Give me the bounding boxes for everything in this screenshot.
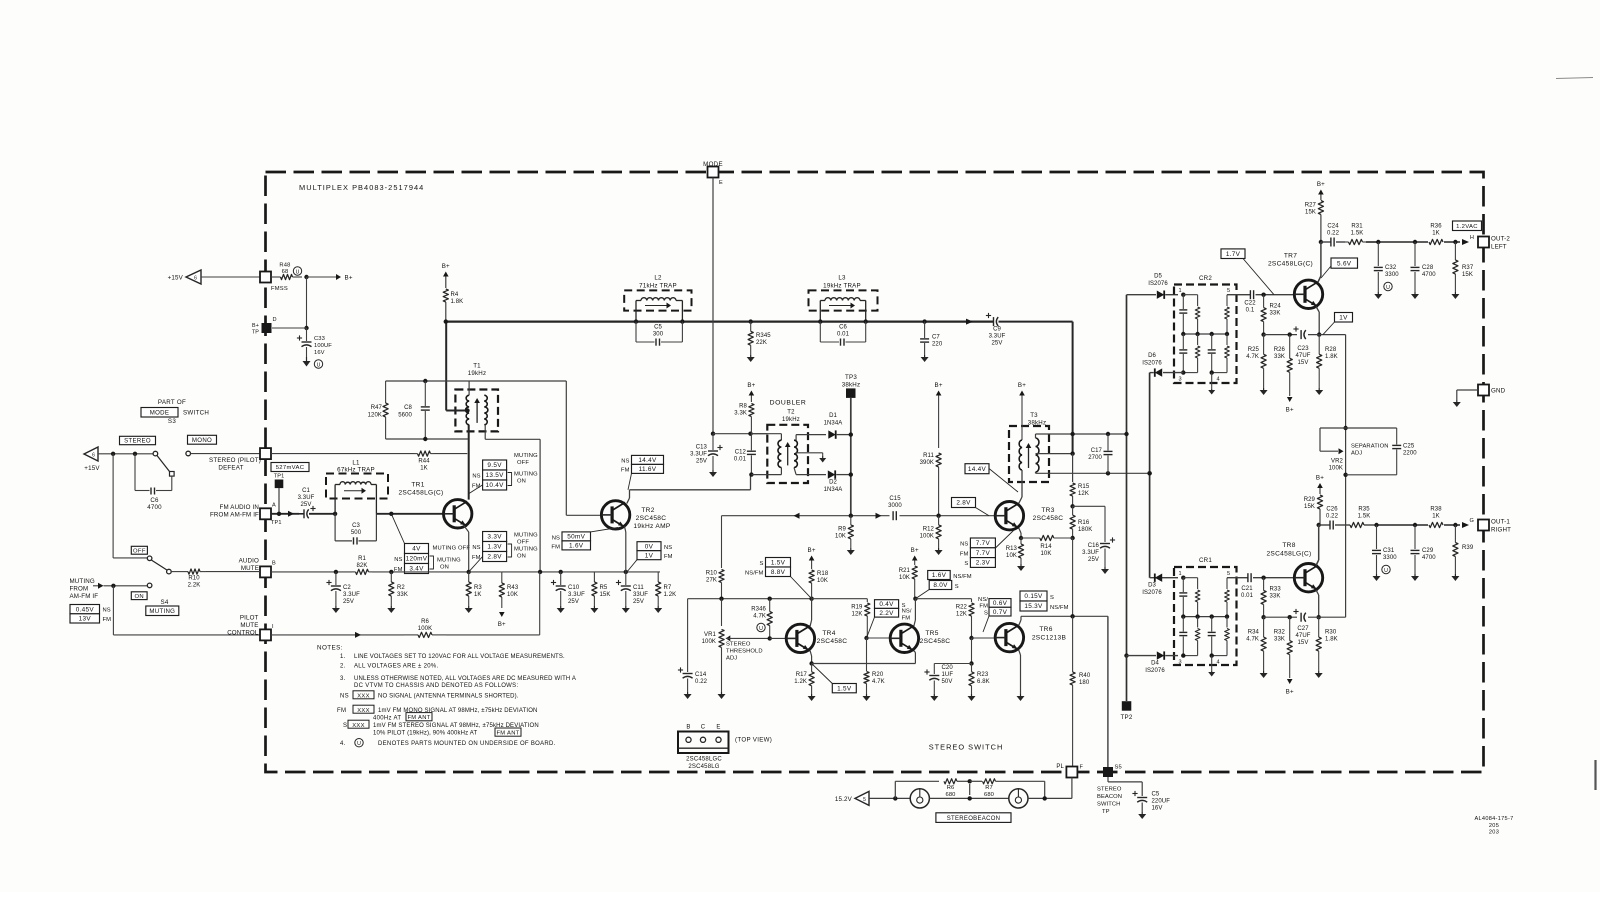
capacitor C22 0.1 series (1241, 290, 1294, 313)
svg-text:AL4084-175-7: AL4084-175-7 (1474, 816, 1513, 822)
svg-text:C12: C12 (735, 450, 747, 456)
resistor R48 68 (271, 263, 302, 280)
diode D6 IS2076 (1142, 353, 1183, 578)
resistor R25 4.7K (1246, 335, 1266, 388)
CR2 pin 3 bus (1178, 370, 1197, 382)
svg-text:1.8K: 1.8K (1325, 637, 1338, 643)
svg-text:68: 68 (282, 269, 289, 275)
svg-text:2SC458LG(C): 2SC458LG(C) (1266, 551, 1311, 558)
svg-text:S5: S5 (1115, 765, 1122, 771)
resistor R8 3.3K (734, 404, 754, 434)
svg-text:0V: 0V (645, 543, 654, 550)
svg-text:205: 205 (1489, 823, 1499, 829)
svg-text:R25: R25 (1248, 347, 1260, 353)
svg-text:R21: R21 (899, 568, 911, 574)
svg-text:12K: 12K (956, 612, 967, 618)
wire L1 to TR1 base (376, 512, 443, 516)
resistor R44 1K (414, 451, 467, 472)
diode D2 1N34A (796, 470, 851, 493)
capacitor C27 47UF 15V series (1293, 609, 1310, 646)
svg-text:100UF: 100UF (314, 343, 332, 349)
svg-text:CR1: CR1 (1199, 557, 1212, 564)
svg-text:0.22: 0.22 (1327, 231, 1340, 237)
svg-text:OFF: OFF (133, 549, 146, 555)
svg-text:1.: 1. (340, 654, 346, 660)
svg-text:0.01: 0.01 (1241, 593, 1254, 599)
svg-text:D5: D5 (1154, 274, 1162, 280)
capacitor C2 3.3UF 25V (326, 570, 360, 606)
svg-text:2.8V: 2.8V (956, 500, 971, 507)
voltage box 1.7V (TR7 base) (1221, 249, 1274, 295)
wire right output rail (1374, 522, 1469, 528)
CR2 mid bus (1181, 332, 1229, 336)
resistor R31 1.5K series (1336, 224, 1378, 245)
svg-text:2.: 2. (340, 663, 346, 669)
svg-text:SEPARATION: SEPARATION (1351, 444, 1389, 450)
svg-text:1V: 1V (645, 552, 654, 559)
svg-text:GND: GND (1491, 388, 1506, 395)
svg-text:1K: 1K (474, 592, 482, 598)
svg-text:NS: NS (621, 458, 629, 464)
CR1 internal cap upper left (1179, 578, 1187, 617)
ground below C7 (921, 355, 929, 362)
svg-text:1K: 1K (1432, 514, 1440, 520)
wire R10 27K drop from 19kHz rail (721, 516, 723, 568)
svg-text:220: 220 (932, 342, 943, 348)
svg-text:2SC458C: 2SC458C (817, 638, 848, 645)
svg-text:CONTROL: CONTROL (227, 630, 259, 637)
svg-text:B+: B+ (442, 263, 450, 270)
voltage boxes NS-FM 0.6V / S 0.7V (TR6 base) (978, 597, 1011, 632)
svg-text:FM: FM (472, 484, 481, 490)
resistor R26 33K (1274, 335, 1293, 396)
svg-text:1.5K: 1.5K (1351, 231, 1364, 237)
svg-text:STEREO: STEREO (1097, 787, 1122, 793)
svg-text:H: H (1470, 235, 1474, 241)
svg-text:ON: ON (134, 594, 143, 600)
CR2 pin 1 (1178, 288, 1185, 297)
resistor R38 1K series (1428, 507, 1444, 531)
svg-text:500: 500 (351, 530, 362, 536)
wire TR4 collector up (810, 599, 812, 627)
ground below C14 (684, 692, 692, 699)
ground below R5 (590, 606, 598, 613)
svg-text:9.5V: 9.5V (487, 462, 502, 469)
svg-text:C16: C16 (1088, 543, 1100, 549)
ground below CR2 pin 4 (1208, 389, 1215, 395)
svg-text:S4: S4 (161, 599, 169, 606)
capacitor C29 4700 (1411, 525, 1437, 574)
svg-text:R36: R36 (1430, 224, 1442, 230)
svg-text:R18: R18 (817, 571, 829, 577)
svg-text:R3: R3 (474, 585, 482, 591)
label STEREO BEACON SWITCH TP (1097, 787, 1122, 816)
svg-text:SWITCH: SWITCH (1097, 802, 1120, 808)
svg-text:1.5V: 1.5V (837, 685, 852, 692)
svg-text:R13: R13 (1006, 546, 1018, 552)
capacitor C23 47UF 15V series (1293, 326, 1310, 366)
svg-text:R7: R7 (985, 785, 993, 791)
ground at GND terminal (1453, 400, 1461, 407)
resistor R13 10K (1006, 538, 1024, 564)
trap L2 71kHz dashed box (624, 275, 691, 311)
svg-text:0.15V: 0.15V (1024, 593, 1043, 600)
svg-text:R346: R346 (751, 607, 766, 613)
svg-text:203: 203 (1489, 829, 1499, 835)
wire TP3 column (849, 398, 853, 516)
svg-text:1.5V: 1.5V (771, 560, 786, 567)
ground below CR1 pin 4 (1208, 671, 1215, 677)
svg-text:AM-FM IF: AM-FM IF (70, 593, 99, 600)
wire to B+ arrow (307, 274, 353, 282)
svg-text:3: 3 (1178, 660, 1181, 666)
svg-text:FM: FM (103, 617, 112, 623)
svg-text:B+: B+ (808, 547, 816, 554)
power B+ above R11 (935, 382, 943, 448)
svg-text:DOUBLER: DOUBLER (770, 400, 807, 407)
underside mark U below C32 (1384, 282, 1392, 291)
power B+ down below R26 (1286, 397, 1294, 414)
wire TR6 collector rail (1019, 614, 1108, 767)
svg-text:4: 4 (1216, 660, 1219, 666)
svg-text:25V: 25V (301, 502, 312, 508)
transformer T2 19kHz dashed box (767, 410, 808, 484)
svg-text:SWITCH: SWITCH (183, 410, 209, 417)
svg-text:R26: R26 (1274, 347, 1286, 353)
voltage box 1.5V (TR4 emitter) (812, 664, 857, 693)
svg-text:D3: D3 (1148, 583, 1156, 589)
capacitor C1 3.3UF 25V (298, 488, 338, 518)
svg-text:+15V: +15V (168, 275, 184, 282)
svg-text:2SC1213B: 2SC1213B (1032, 635, 1067, 642)
resistor R37 15K (1453, 242, 1474, 292)
svg-text:4700: 4700 (147, 504, 162, 511)
svg-text:7.7V: 7.7V (976, 540, 991, 547)
svg-text:DC VTVM TO CHASSIS AND DENOTED: DC VTVM TO CHASSIS AND DENOTED AS FOLLOW… (354, 683, 518, 689)
label MONO boxed (188, 435, 217, 444)
svg-text:R19: R19 (851, 605, 863, 611)
svg-text:IS2076: IS2076 (1148, 281, 1168, 287)
svg-text:8.8V: 8.8V (771, 569, 786, 576)
terminal A FM AUDIO IN (210, 503, 282, 527)
wire TR1 emitter to B rail (464, 526, 471, 574)
svg-text:NS: NS (472, 545, 480, 551)
svg-text:R17: R17 (796, 672, 808, 678)
switch S4 pole contact (167, 569, 172, 574)
svg-text:C29: C29 (1422, 548, 1434, 554)
resistor R18 10K (809, 570, 829, 599)
svg-text:LINE VOLTAGES SET TO 120VAC FO: LINE VOLTAGES SET TO 120VAC FOR ALL VOLT… (354, 654, 565, 660)
svg-text:E: E (716, 724, 720, 730)
svg-text:4.: 4. (340, 741, 346, 747)
transformer T1 19kHz dashed box (455, 363, 498, 432)
svg-text:R37: R37 (1462, 265, 1474, 271)
svg-text:TP1: TP1 (274, 474, 285, 480)
svg-text:R345: R345 (756, 333, 771, 339)
svg-text:R34: R34 (1248, 630, 1260, 636)
svg-text:14.4V: 14.4V (968, 466, 987, 473)
CR1 internal resistor lower mid (1195, 617, 1200, 656)
svg-text:C9: C9 (993, 327, 1001, 333)
svg-text:S: S (343, 723, 347, 729)
svg-text:3.: 3. (340, 676, 346, 682)
capacitor C14 0.22 (678, 599, 708, 692)
svg-text:C6: C6 (839, 325, 847, 331)
wire detector column D5 feed (1124, 295, 1128, 658)
resistor R30 1.8K (1316, 617, 1338, 671)
lamp PL1 stereo beacon left (910, 789, 929, 808)
svg-text:TP: TP (252, 330, 259, 336)
svg-text:0.22: 0.22 (695, 679, 708, 685)
svg-text:IS2076: IS2076 (1142, 590, 1162, 596)
svg-text:19kHz: 19kHz (782, 417, 800, 423)
wire TR7 emitter node 1V (1264, 307, 1346, 337)
svg-text:E: E (719, 180, 723, 186)
svg-text:NS: NS (960, 542, 968, 548)
svg-text:TR5: TR5 (925, 630, 938, 637)
wire left output rail (1376, 239, 1469, 245)
ground below R30 (1315, 671, 1323, 678)
svg-text:MUTING: MUTING (514, 533, 538, 539)
resistor R19 12K (851, 603, 870, 640)
svg-text:ON: ON (517, 554, 526, 560)
svg-text:13V: 13V (79, 616, 92, 623)
svg-text:33K: 33K (1274, 637, 1285, 643)
wire T3 secondary bottom rail (1036, 471, 1152, 475)
svg-text:1.3V: 1.3V (487, 544, 502, 551)
wire junction down to B+ TP (272, 277, 309, 330)
switch S4 on contact (147, 583, 152, 588)
ground below R23 (968, 694, 976, 701)
svg-text:C5: C5 (654, 325, 662, 331)
capacitor C11 33UF 25V (616, 570, 648, 606)
svg-text:0.22: 0.22 (1326, 514, 1339, 520)
svg-text:XXX: XXX (352, 723, 365, 729)
svg-text:NS/: NS/ (902, 609, 912, 615)
svg-text:C26: C26 (1326, 507, 1338, 513)
svg-text:B+: B+ (1316, 475, 1324, 482)
svg-text:82K: 82K (357, 563, 368, 569)
resistor R32 33K (1274, 617, 1293, 678)
ground below R345 (747, 355, 755, 362)
notes block (317, 644, 576, 747)
svg-text:TP1: TP1 (271, 520, 282, 526)
voltage boxes NS 14.4V / FM 11.6V (TR2 collector) (621, 455, 664, 489)
wire C13 node to T2 (713, 432, 767, 436)
resistor R23 6.8K (969, 664, 990, 695)
svg-text:STEREO: STEREO (124, 438, 151, 445)
svg-text:15.2V: 15.2V (835, 796, 853, 803)
T2 secondary winding (794, 435, 797, 475)
wire TR5 collector to TR6 base rail (914, 599, 972, 626)
svg-text:67kHz TRAP: 67kHz TRAP (337, 467, 375, 474)
voltage boxes NS 50mV / FM 1.6V (TR2 base) (551, 528, 618, 551)
svg-text:ON: ON (440, 565, 449, 571)
switch S3 stereo contact (153, 451, 174, 476)
svg-text:U: U (1384, 568, 1388, 574)
label 527mVAC boxed (271, 463, 309, 472)
wire lamps to PL terminal (1028, 778, 1072, 801)
svg-text:S: S (955, 584, 959, 590)
underside mark U for R48 (293, 267, 301, 276)
ground below C16 (1101, 567, 1109, 574)
svg-text:3.3V: 3.3V (487, 534, 502, 541)
svg-text:T2: T2 (787, 410, 795, 416)
svg-text:100K: 100K (1329, 466, 1343, 472)
wire TR4 collector bus (688, 597, 814, 601)
module CR2 dashed box (1174, 275, 1237, 383)
svg-text:22K: 22K (756, 340, 767, 346)
svg-text:NS/: NS/ (978, 597, 988, 603)
svg-text:PILOT: PILOT (240, 615, 259, 622)
svg-text:S: S (1050, 595, 1054, 601)
wire TR2 emitter down (625, 527, 626, 572)
svg-text:C27: C27 (1297, 626, 1309, 632)
svg-text:R32: R32 (1274, 630, 1286, 636)
svg-text:12K: 12K (1078, 491, 1089, 497)
svg-text:R6: R6 (947, 785, 955, 791)
svg-text:T3: T3 (1030, 412, 1038, 419)
resistor R1 82K series (352, 556, 469, 575)
inductor L2 winding (634, 298, 685, 324)
diode D3 IS2076 (1142, 471, 1178, 596)
voltage boxes S 1.5V / NS-FM 8.8V (TR4 collector) (745, 558, 812, 599)
svg-text:D6: D6 (1148, 353, 1156, 359)
CR1 pin 4 bus (1210, 653, 1228, 671)
capacitor C5 220UF 16V (1108, 777, 1170, 812)
svg-text:10K: 10K (1006, 553, 1017, 559)
svg-text:C10: C10 (568, 585, 580, 591)
svg-text:C15: C15 (889, 496, 901, 502)
svg-text:LEFT: LEFT (1491, 244, 1507, 251)
svg-text:B+: B+ (498, 621, 506, 628)
svg-text:OUT-2: OUT-2 (1491, 236, 1510, 243)
svg-text:15V: 15V (1298, 360, 1309, 366)
resistor R33 33K (1261, 578, 1281, 620)
svg-text:R43: R43 (507, 585, 519, 591)
voltage box 1V (TR7 emitter) (1323, 313, 1353, 335)
svg-text:NS/FM: NS/FM (953, 574, 972, 580)
CR1 internal cap lower mid (pin4) (1208, 617, 1216, 656)
resistor R21 10K (899, 566, 918, 601)
trap L1 67kHz dashed box (326, 460, 388, 499)
svg-text:DEFEAT: DEFEAT (218, 465, 243, 472)
svg-text:1: 1 (1178, 288, 1181, 294)
potentiometer VR1 100K STEREO THRESHOLD ADJ (702, 599, 770, 692)
svg-text:TP: TP (1102, 809, 1110, 815)
svg-text:AUDIO: AUDIO (239, 558, 259, 565)
svg-text:MUTING: MUTING (70, 578, 95, 585)
capacitor C15 3000 series (888, 496, 902, 520)
wire R15 R16 column (1072, 454, 1074, 482)
svg-text:U: U (317, 362, 321, 368)
svg-text:U: U (759, 626, 763, 632)
capacitor C17 2700 (1088, 434, 1112, 473)
svg-text:C21: C21 (1241, 586, 1253, 592)
wire feedback bottom (386, 437, 469, 441)
label STEREO (PILOT) DEFEAT (209, 457, 261, 472)
svg-text:47UF: 47UF (1295, 353, 1310, 359)
svg-text:TR6: TR6 (1039, 626, 1052, 633)
svg-text:R12: R12 (923, 527, 935, 533)
svg-text:U: U (296, 269, 300, 275)
svg-text:R5: R5 (600, 585, 608, 591)
ground below R39 (1451, 574, 1459, 581)
svg-text:15K: 15K (600, 592, 611, 598)
svg-text:11.6V: 11.6V (639, 466, 657, 473)
svg-text:15.3V: 15.3V (1024, 603, 1043, 610)
scan artifact top right (1556, 78, 1593, 79)
label PART OF MODE SWITCH S3 (141, 399, 209, 425)
svg-text:0.1: 0.1 (1246, 308, 1255, 314)
voltage boxes NS 7.7V / FM 7.7V / S 2.3V (TR3 emitter) (960, 530, 1014, 567)
CR2 pin 5 (1227, 288, 1241, 295)
svg-text:300: 300 (653, 332, 664, 338)
svg-text:STEREO: STEREO (726, 642, 751, 648)
CR2 pin 4 bus (1210, 370, 1228, 389)
svg-text:33K: 33K (1270, 594, 1281, 600)
svg-text:R20: R20 (872, 672, 884, 678)
svg-text:TR8: TR8 (1282, 542, 1295, 549)
capacitor C6 0.01 (L3 trap) (820, 322, 865, 346)
svg-text:MUTING: MUTING (514, 472, 538, 478)
svg-text:19kHz TRAP: 19kHz TRAP (823, 283, 861, 290)
svg-text:38kHz: 38kHz (842, 382, 861, 389)
terminal H OUT-2 LEFT (1470, 235, 1511, 251)
svg-text:4V: 4V (412, 546, 421, 553)
svg-text:C33: C33 (314, 336, 325, 342)
svg-text:R30: R30 (1325, 630, 1337, 636)
svg-text:C24: C24 (1327, 224, 1339, 230)
wire MODE line down (711, 178, 715, 436)
resistor R24 33K (1261, 295, 1281, 337)
svg-text:S: S (760, 561, 764, 567)
svg-text:680: 680 (984, 792, 994, 798)
svg-text:NOTES:: NOTES: (317, 644, 343, 651)
svg-text:4.7K: 4.7K (1246, 354, 1259, 360)
ground below R25 (1260, 388, 1268, 395)
svg-text:C6: C6 (150, 497, 159, 504)
svg-text:0.7V: 0.7V (993, 609, 1008, 616)
svg-text:1.7V: 1.7V (1226, 251, 1241, 258)
svg-text:2SC458LG(C): 2SC458LG(C) (398, 490, 443, 497)
capacitor C26 0.22 series (1319, 507, 1339, 530)
svg-text:STEREO SWITCH: STEREO SWITCH (929, 743, 1004, 752)
svg-text:15K: 15K (1304, 504, 1315, 510)
wire TR3 emitter (1019, 528, 1024, 540)
wire TR8 emitter node (1264, 590, 1346, 620)
svg-text:100K: 100K (920, 534, 934, 540)
T3 core arrow (1026, 443, 1032, 468)
svg-text:FM: FM (979, 604, 988, 610)
svg-text:R29: R29 (1304, 497, 1316, 503)
terminal 5 15.2V triangle (835, 791, 869, 805)
svg-text:MUTING: MUTING (149, 608, 175, 615)
CR2 internal cap lower mid (pin4) (1208, 334, 1216, 373)
svg-text:RIGHT: RIGHT (1491, 527, 1511, 534)
svg-text:TP2: TP2 (1121, 714, 1133, 721)
terminal B AUDIO MUTE (239, 558, 276, 578)
underside mark U below C31 (1382, 565, 1390, 574)
capacitor C21 0.01 series (1241, 573, 1294, 599)
ground below R13 (1017, 564, 1025, 571)
svg-text:NS/FM: NS/FM (745, 571, 764, 577)
svg-text:15V: 15V (1298, 640, 1309, 646)
resistor R7 680 (beacon) (970, 779, 1045, 799)
svg-text:1.2K: 1.2K (664, 592, 677, 598)
resistor R345 22K (748, 319, 771, 355)
svg-text:FROM AM-FM IF: FROM AM-FM IF (210, 512, 259, 519)
